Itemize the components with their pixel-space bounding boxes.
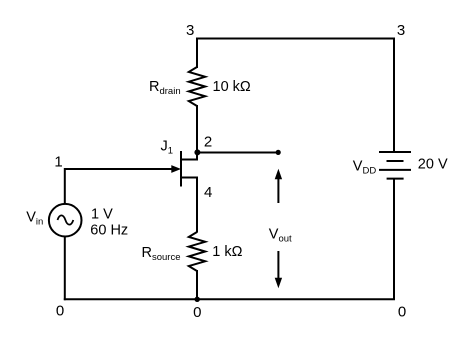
- svg-text:1 kΩ: 1 kΩ: [212, 244, 242, 260]
- battery VDD: long plate 2: [379, 169, 411, 171]
- wire R_drain bottom to node 2: [196, 105, 198, 153]
- svg-text:2: 2: [204, 134, 212, 151]
- transistor J1: source lead (pin 4): [180, 177, 197, 179]
- source Vin: circle: [49, 204, 82, 237]
- svg-text:Vout: Vout: [269, 227, 292, 245]
- svg-text:4: 4: [204, 184, 212, 201]
- transistor J1: channel bar: [180, 151, 182, 187]
- svg-text:0: 0: [398, 304, 406, 321]
- wire node 4: source to R_source: [196, 177, 198, 233]
- resistor R_drain: [189, 67, 205, 106]
- svg-text:Rsource: Rsource: [142, 245, 181, 263]
- svg-text:0: 0: [56, 303, 64, 320]
- Vout up arrowhead: [275, 169, 282, 180]
- node 2 junction dot: [194, 149, 200, 155]
- Vout down arrowhead: [275, 278, 282, 289]
- wire battery - to ground rail: [393, 179, 395, 300]
- wire node 0: bottom rail: [64, 298, 395, 300]
- transistor J1: drain lead (pin 2): [180, 153, 197, 160]
- battery VDD: positive long plate: [379, 151, 411, 153]
- node 0 junction dot: [195, 297, 200, 302]
- svg-text:10 kΩ: 10 kΩ: [213, 79, 251, 95]
- wire node 3: R_drain top riser: [196, 38, 198, 69]
- transistor J1: gate arrowhead: [171, 165, 181, 173]
- wire node 3: right rail to battery +: [393, 38, 395, 153]
- svg-text:20 V: 20 V: [418, 157, 448, 173]
- svg-text:1 V: 1 V: [91, 207, 113, 223]
- wire node 2 to output probe: [197, 152, 278, 154]
- source Vin: sine wave: [58, 215, 74, 224]
- battery VDD: negative short plate: [387, 178, 404, 180]
- Vout down arrow shaft: [277, 251, 279, 279]
- svg-text:1: 1: [54, 154, 62, 171]
- svg-text:3: 3: [186, 22, 194, 39]
- svg-text:Rdrain: Rdrain: [149, 79, 181, 97]
- wire R_source bottom to ground rail: [196, 270, 198, 299]
- wire Vin bottom to ground rail: [64, 237, 66, 301]
- wire node 1: Vin top to J1 gate: [65, 169, 173, 204]
- battery VDD: short plate 1: [387, 160, 404, 162]
- svg-text:3: 3: [397, 22, 405, 39]
- output probe dot: [276, 150, 281, 155]
- resistor R_source: [189, 232, 205, 271]
- Vout up arrow shaft: [277, 177, 279, 203]
- svg-text:60 Hz: 60 Hz: [90, 223, 128, 239]
- svg-text:0: 0: [193, 304, 201, 321]
- svg-text:VDD: VDD: [353, 159, 377, 177]
- svg-text:Vin: Vin: [26, 210, 43, 228]
- wire node 3: top rail: [196, 38, 395, 40]
- svg-text:J1: J1: [161, 139, 174, 157]
